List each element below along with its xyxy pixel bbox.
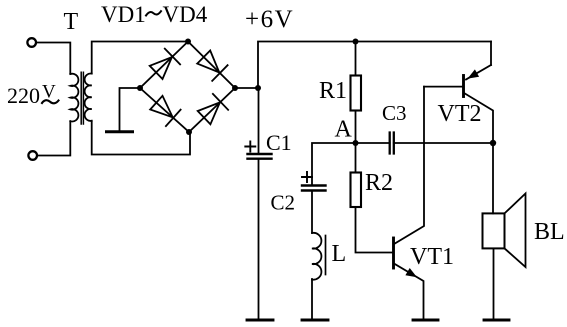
transistor VT2 emitter — [466, 65, 491, 80]
diode VD2 — [197, 51, 227, 81]
capacitor C1 — [248, 154, 272, 159]
wire R2 to VT1 base — [356, 207, 394, 253]
inductor L — [312, 233, 321, 280]
ground at bridge — [107, 130, 133, 133]
svg-text:VT1: VT1 — [410, 244, 454, 270]
input terminal bottom — [28, 151, 37, 160]
transistor VT1 base bar — [392, 238, 395, 268]
wire node A down to R2 — [355, 143, 357, 173]
speaker BL horn — [505, 194, 526, 268]
label R2 — [365, 170, 393, 196]
svg-text:VT2: VT2 — [438, 101, 482, 127]
wire C1 to ground — [258, 159, 260, 319]
capacitor C2 plus sign — [302, 172, 312, 182]
label R1 — [319, 78, 347, 104]
wire primary bottom — [37, 121, 70, 155]
svg-text:V: V — [42, 82, 56, 103]
svg-text:C2: C2 — [271, 191, 296, 215]
resistor R1 — [351, 76, 362, 111]
transistor VT1 collector — [394, 87, 424, 244]
label +6V — [245, 6, 294, 33]
wire C2 to L — [311, 191, 313, 234]
label L — [332, 241, 347, 267]
transistor VT2 collector — [464, 93, 493, 143]
node rectifier output — [255, 85, 261, 91]
resistor R2 — [351, 173, 362, 208]
label VT2 — [438, 101, 482, 127]
transistor VT1 emitter arrow — [405, 268, 417, 277]
node bridge right — [232, 85, 238, 91]
svg-text:VD1: VD1 — [101, 2, 146, 27]
diode VD3 — [150, 96, 180, 126]
svg-text:L: L — [332, 241, 347, 267]
label 220V — [7, 82, 56, 109]
svg-text:R2: R2 — [365, 170, 393, 196]
transistor VT2 base bar — [462, 76, 465, 97]
capacitor C2 — [302, 186, 326, 191]
label C3 — [382, 101, 407, 125]
wire L to ground — [311, 279, 313, 319]
label A — [335, 117, 353, 143]
wire VT2 base to VT1 collector — [424, 86, 464, 88]
speaker BL frame — [483, 213, 505, 248]
wire C3 to output node — [394, 142, 493, 144]
diode VD4 — [198, 94, 228, 124]
node A — [353, 140, 359, 146]
label VT1 — [410, 244, 454, 270]
transformer core — [81, 72, 83, 124]
wire output node to speaker — [492, 143, 494, 213]
wire bridge right to +6V rail — [235, 42, 491, 89]
capacitor C3 — [390, 133, 394, 154]
input terminal top — [27, 38, 36, 47]
svg-text:BL: BL — [534, 219, 565, 245]
wire R1 to node A — [355, 111, 357, 144]
svg-text:C3: C3 — [382, 101, 407, 125]
wire speaker to ground — [493, 248, 495, 319]
wire C3 input — [356, 142, 390, 144]
label BL — [534, 219, 565, 245]
wire node A left to C2 — [312, 143, 356, 186]
transistor VT1 emitter — [394, 264, 424, 320]
ground at speaker — [484, 319, 509, 322]
node R1 top — [353, 39, 359, 45]
ground at VT1 — [413, 319, 438, 322]
wire rail corner to VT2 emitter — [490, 42, 492, 66]
wire rail down to C1 — [258, 88, 260, 154]
transformer T primary winding — [70, 74, 78, 122]
wire secondary bottom to bridge — [92, 121, 190, 155]
label VD1~VD4 — [101, 2, 208, 27]
inductor core — [325, 236, 327, 275]
wire bridge left to ground — [120, 88, 141, 130]
svg-text:A: A — [335, 117, 353, 143]
node output — [490, 140, 496, 146]
capacitor C1 plus sign — [245, 142, 255, 152]
label T — [64, 9, 79, 35]
svg-text:T: T — [64, 9, 79, 35]
transistor VT2 emitter arrow — [468, 69, 480, 78]
node bridge bottom — [186, 129, 192, 135]
label tilde under V — [42, 100, 59, 103]
svg-text:+6V: +6V — [245, 6, 294, 33]
bridge frame — [140, 42, 235, 133]
label C2 — [271, 191, 296, 215]
wire rail to R1 — [355, 42, 357, 76]
node bridge left — [137, 85, 143, 91]
label tilde in VD1~VD4 — [146, 11, 161, 15]
wire secondary top to bridge — [92, 42, 188, 74]
diode VD1 — [150, 49, 180, 79]
transformer T secondary winding — [85, 74, 92, 121]
svg-text:R1: R1 — [319, 78, 347, 104]
svg-text:VD4: VD4 — [163, 2, 208, 27]
ground at L — [302, 319, 328, 322]
node bridge top — [185, 39, 191, 45]
label C1 — [266, 130, 292, 155]
wire primary top — [36, 43, 70, 75]
ground at C1 — [247, 319, 273, 322]
svg-text:C1: C1 — [266, 130, 292, 155]
svg-text:220: 220 — [7, 83, 40, 108]
